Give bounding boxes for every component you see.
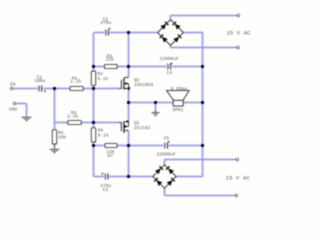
svg-text:R7: R7 bbox=[108, 153, 114, 159]
wire mid rail bbox=[128, 33, 130, 177]
svg-text:10k: 10k bbox=[58, 134, 67, 140]
wire top AC lower bbox=[171, 45, 234, 47]
wire bottom AC upper bbox=[165, 160, 233, 165]
svg-text:22000uF: 22000uF bbox=[160, 56, 180, 62]
wire input to R4 rail bbox=[54, 89, 56, 130]
capacitor C2 bbox=[100, 17, 111, 36]
wire top AC upper bbox=[171, 16, 234, 20]
terminal GND bbox=[9, 102, 18, 112]
label 15 V AC top bbox=[226, 30, 251, 37]
terminal AC top 1 bbox=[234, 14, 240, 17]
capacitor C1 bbox=[34, 75, 46, 93]
terminal AC bottom 2 bbox=[232, 194, 238, 197]
terminal AC bottom 1 bbox=[233, 158, 239, 161]
svg-text:2SJ162: 2SJ162 bbox=[134, 125, 151, 131]
svg-text:Q1: Q1 bbox=[134, 77, 140, 83]
svg-text:5 Ohms: 5 Ohms bbox=[171, 86, 188, 92]
capacitor C4 bbox=[160, 56, 180, 76]
resistor R2 bbox=[91, 71, 108, 85]
svg-text:9.1k: 9.1k bbox=[98, 133, 109, 139]
diode B1 bottom-left bbox=[160, 34, 168, 42]
svg-text:C4: C4 bbox=[167, 70, 173, 76]
svg-text:IN: IN bbox=[10, 81, 16, 87]
wire right rail bbox=[202, 33, 204, 177]
wire R4 line bbox=[55, 122, 120, 124]
wire speaker ground stub bbox=[155, 103, 157, 111]
label 15 V AC bottom bbox=[226, 175, 251, 182]
svg-text:R6: R6 bbox=[98, 127, 104, 133]
svg-text:2.2k: 2.2k bbox=[70, 78, 81, 84]
diode B1 top-right bbox=[172, 22, 180, 30]
svg-text:SPK1: SPK1 bbox=[172, 107, 183, 113]
svg-text:470u: 470u bbox=[100, 20, 111, 26]
bridge rectifier B1 bbox=[158, 20, 184, 46]
diode B2 top-left bbox=[155, 166, 163, 174]
terminal AC top 2 bbox=[233, 46, 239, 49]
diode B2 bottom-right bbox=[167, 178, 175, 186]
diode B1 top-left bbox=[160, 22, 168, 30]
resistor R5 bbox=[52, 130, 66, 144]
wire C2 line bbox=[94, 32, 158, 34]
wire R3 C4 line bbox=[94, 66, 203, 68]
wire bottom bridge to rail bbox=[176, 176, 203, 178]
svg-text:C5: C5 bbox=[164, 136, 170, 142]
terminal IN bbox=[10, 81, 16, 89]
bridge rectifier B2 bbox=[153, 165, 176, 188]
wire R5 to ground bbox=[54, 144, 56, 149]
wire C3 line bbox=[94, 176, 153, 178]
svg-text:100u: 100u bbox=[34, 78, 45, 84]
diode B1 bottom-right bbox=[173, 34, 181, 42]
wire bottom AC lower bbox=[165, 188, 232, 195]
resistor R1 bbox=[70, 76, 83, 91]
wire input line bbox=[14, 88, 120, 90]
ground near input terminal bbox=[22, 117, 32, 120]
wire GND terminal lead bbox=[16, 104, 26, 117]
svg-text:15 V AC: 15 V AC bbox=[226, 30, 251, 37]
ground at speaker bbox=[152, 110, 160, 116]
svg-text:22000uF: 22000uF bbox=[157, 151, 177, 157]
capacitor C3 bbox=[100, 173, 111, 194]
wire R7 C5 line bbox=[94, 145, 203, 147]
resistor R3 bbox=[105, 54, 118, 69]
svg-text:2SK1058: 2SK1058 bbox=[134, 82, 154, 88]
transistor Q1 2SK1058 bbox=[119, 77, 154, 90]
capacitor C5 bbox=[157, 136, 177, 158]
resistor R7 bbox=[105, 143, 117, 159]
svg-text:9.1k: 9.1k bbox=[97, 76, 108, 82]
svg-text:15 V AC: 15 V AC bbox=[226, 175, 251, 182]
diode B2 top-right bbox=[166, 166, 174, 174]
resistor R6 bbox=[91, 127, 109, 142]
wire left rail bbox=[93, 33, 95, 177]
svg-text:22k: 22k bbox=[106, 56, 115, 62]
resistor R4 bbox=[67, 110, 81, 125]
wire top bridge to rail bbox=[183, 32, 203, 34]
wire output line bbox=[129, 102, 203, 104]
transistor Q2 2SJ162 bbox=[119, 120, 151, 133]
svg-text:GND: GND bbox=[9, 106, 18, 112]
svg-text:2.2k: 2.2k bbox=[67, 114, 78, 120]
diode B2 bottom-left bbox=[154, 178, 162, 186]
speaker SPK1 bbox=[167, 86, 190, 113]
ground below R5 bbox=[50, 149, 60, 152]
svg-text:C3: C3 bbox=[103, 187, 109, 193]
